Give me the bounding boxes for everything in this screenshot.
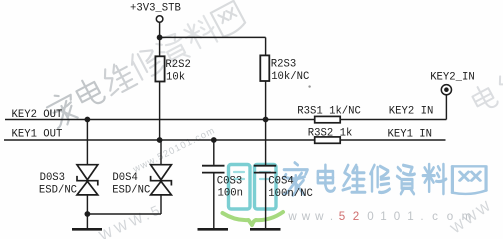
svg-text:.: . — [420, 210, 423, 223]
svg-text:10k/NC: 10k/NC — [271, 71, 309, 83]
svg-text:KEY1 IN: KEY1 IN — [388, 128, 433, 140]
svg-text:R2S2: R2S2 — [165, 59, 190, 71]
svg-text:w: w — [287, 210, 297, 223]
svg-text:o: o — [447, 210, 453, 223]
svg-text:2: 2 — [353, 210, 359, 223]
svg-text:0: 0 — [367, 210, 373, 223]
svg-text:D0S4: D0S4 — [112, 172, 137, 184]
svg-text:1: 1 — [407, 210, 413, 223]
svg-text:+3V3_STB: +3V3_STB — [130, 2, 181, 14]
svg-text:c: c — [432, 210, 438, 223]
svg-text:R2S3: R2S3 — [271, 58, 296, 70]
svg-text:w: w — [301, 210, 311, 223]
svg-text:100n: 100n — [218, 187, 243, 199]
svg-text:C0S3: C0S3 — [217, 176, 242, 188]
svg-text:.: . — [330, 210, 333, 223]
svg-text:100n/NC: 100n/NC — [268, 188, 313, 200]
svg-text:0: 0 — [394, 210, 400, 223]
svg-text:m: m — [462, 210, 472, 223]
svg-text:KEY2 IN: KEY2 IN — [389, 106, 434, 118]
svg-text:R3S1 1k/NC: R3S1 1k/NC — [297, 105, 361, 117]
svg-text:KEY2_IN: KEY2_IN — [430, 72, 475, 84]
svg-text:5: 5 — [339, 210, 345, 223]
svg-text:ESD/NC: ESD/NC — [112, 184, 150, 196]
svg-text:KEY2 OUT: KEY2 OUT — [12, 109, 63, 121]
svg-text:C0S4: C0S4 — [268, 176, 293, 188]
svg-text:D0S3: D0S3 — [40, 172, 65, 184]
svg-text:1: 1 — [380, 210, 386, 223]
svg-text:w: w — [314, 210, 324, 223]
svg-text:ESD/NC: ESD/NC — [39, 184, 77, 196]
svg-text:KEY1 OUT: KEY1 OUT — [12, 128, 63, 140]
svg-text:10k: 10k — [166, 72, 185, 84]
svg-text:R3S2 1k: R3S2 1k — [308, 128, 353, 140]
